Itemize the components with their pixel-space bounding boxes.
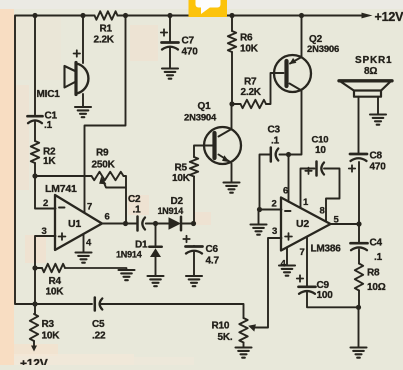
svg-text:C10: C10 [312, 135, 329, 146]
svg-text:.1: .1 [374, 252, 383, 263]
svg-text:10K: 10K [46, 287, 65, 298]
svg-text:5K.: 5K. [218, 332, 233, 343]
svg-text:10K: 10K [172, 173, 191, 184]
svg-text:.1: .1 [271, 136, 280, 147]
svg-text:1N914: 1N914 [158, 206, 184, 216]
svg-text:2N3904: 2N3904 [184, 113, 217, 124]
svg-text:R5: R5 [175, 163, 188, 174]
svg-text:470: 470 [182, 47, 199, 58]
svg-text:C2: C2 [128, 194, 141, 205]
svg-text:.1: .1 [133, 205, 142, 216]
svg-text:R9: R9 [96, 148, 109, 159]
svg-text:470: 470 [370, 162, 387, 173]
svg-text:1N914: 1N914 [116, 250, 142, 260]
svg-text:U2: U2 [296, 218, 309, 230]
svg-text:3: 3 [272, 226, 277, 237]
svg-text:LM386: LM386 [311, 244, 342, 255]
svg-text:7: 7 [300, 247, 305, 258]
svg-text:.1: .1 [44, 120, 53, 131]
svg-text:R1: R1 [100, 24, 113, 35]
svg-text:.22: .22 [92, 331, 106, 342]
svg-text:2.2K: 2.2K [241, 87, 262, 98]
svg-text:1K: 1K [43, 156, 56, 167]
svg-text:C3: C3 [268, 125, 281, 136]
svg-text:R3: R3 [42, 319, 55, 330]
svg-text:8Ω: 8Ω [364, 66, 377, 77]
svg-text:10: 10 [315, 145, 326, 156]
svg-text:R4: R4 [49, 276, 62, 287]
svg-text:U1: U1 [68, 218, 81, 230]
svg-text:C6: C6 [206, 244, 219, 255]
svg-text:R8: R8 [367, 268, 380, 279]
svg-text:2.2K: 2.2K [94, 35, 115, 46]
svg-text:10K: 10K [240, 44, 259, 55]
svg-text:MIC1: MIC1 [37, 89, 61, 100]
svg-text:7: 7 [87, 202, 92, 213]
svg-text:C5: C5 [92, 319, 105, 330]
svg-text:3: 3 [42, 226, 47, 237]
svg-text:C7: C7 [182, 36, 195, 47]
svg-text:LM741: LM741 [45, 183, 77, 195]
svg-text:2: 2 [272, 199, 277, 210]
svg-text:6: 6 [105, 212, 110, 223]
svg-text:+12V: +12V [20, 357, 48, 366]
svg-text:R6: R6 [240, 33, 253, 44]
svg-text:2: 2 [43, 198, 48, 209]
svg-text:Q1: Q1 [198, 101, 212, 112]
svg-text:4.7: 4.7 [206, 256, 220, 267]
svg-text:6: 6 [283, 186, 288, 197]
svg-text:SPKR1: SPKR1 [355, 55, 392, 66]
svg-text:10K: 10K [42, 331, 61, 342]
svg-text:C8: C8 [370, 151, 383, 162]
svg-text:10Ω: 10Ω [367, 282, 386, 293]
svg-text:C4: C4 [370, 238, 383, 249]
svg-text:R7: R7 [244, 77, 257, 88]
svg-text:2N3906: 2N3906 [307, 44, 339, 55]
svg-text:R10: R10 [212, 321, 230, 332]
svg-text:250K: 250K [92, 160, 116, 171]
svg-text:100: 100 [317, 290, 334, 301]
svg-text:+12V: +12V [375, 10, 403, 24]
svg-text:8: 8 [320, 206, 325, 217]
